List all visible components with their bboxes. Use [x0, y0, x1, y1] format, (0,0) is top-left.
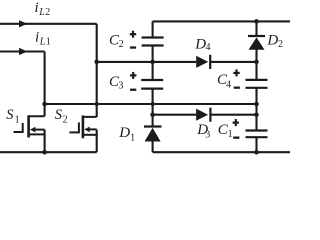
capacitor C3 plates [141, 80, 163, 89]
node dot railB / right column [254, 112, 259, 117]
label S1 [6, 107, 19, 125]
wire C column upper [152, 21, 154, 37]
diode D3 [196, 108, 210, 122]
transistor S1 arrowhead [30, 127, 36, 133]
wire rail y62 left part [97, 61, 197, 63]
wire S1 source vertical [44, 130, 46, 153]
wire ground right [153, 151, 290, 153]
svg-text:4: 4 [226, 79, 231, 90]
wire C column mid1 [152, 46, 154, 80]
svg-text:2: 2 [278, 39, 283, 50]
wire right column mid2 [255, 88, 257, 131]
wire right column lower [255, 137, 257, 152]
wire iL1 horizontal [0, 50, 45, 52]
node dot railA / V2 [95, 102, 99, 106]
arrow iL1 [19, 48, 28, 55]
svg-text:i: i [35, 0, 39, 16]
wire iL2 horizontal [0, 23, 97, 25]
wire S2 source vertical [96, 130, 98, 153]
capacitor C1 plates [246, 131, 268, 138]
polarity C4 minus [234, 87, 240, 89]
diode D2 [248, 36, 265, 50]
node dot railA / C column [151, 102, 155, 106]
polarity C1 minus [233, 137, 239, 139]
svg-text:1: 1 [15, 114, 20, 125]
transistor S2 [69, 115, 96, 138]
svg-text:S: S [55, 107, 63, 123]
polarity C3 plus [130, 72, 136, 79]
polarity C4 plus [233, 69, 239, 76]
node dot rail62 / C column [150, 60, 155, 65]
node dot railA / V1 [42, 102, 47, 107]
label D4 [194, 36, 210, 53]
svg-text:i: i [35, 30, 39, 46]
wire iL1 vertical (node b) [44, 52, 46, 117]
node dot rail62 / V2 [94, 60, 99, 65]
wire rail y62 right part [210, 61, 256, 63]
label C1 [218, 122, 233, 140]
wire C column lower [152, 141, 154, 152]
diode D4 [196, 55, 210, 69]
polarity C2 plus [130, 31, 136, 38]
wire rail A y104 [45, 103, 257, 105]
label C3 [109, 74, 123, 92]
wire C column mid2 [152, 89, 154, 127]
svg-text:4: 4 [206, 42, 211, 53]
capacitor C2 plates [142, 38, 164, 46]
svg-text:1: 1 [130, 133, 135, 144]
polarity C1 plus [233, 119, 239, 126]
polarity C3 minus [130, 89, 136, 91]
svg-text:D: D [118, 125, 130, 141]
label C4 [217, 72, 231, 90]
svg-text:D: D [194, 36, 206, 52]
wire right column upper [255, 21, 257, 36]
label D2 [266, 33, 283, 50]
svg-text:2: 2 [63, 115, 68, 126]
label D1 [118, 125, 135, 144]
node dot ground / V1 [42, 150, 47, 155]
wire rail B y114.7 left part [153, 114, 197, 116]
label D3 [196, 122, 210, 140]
svg-text:1: 1 [228, 129, 233, 140]
svg-text:3: 3 [205, 129, 210, 140]
wire ground left [0, 151, 97, 153]
svg-text:1: 1 [46, 37, 51, 48]
svg-text:D: D [266, 33, 278, 49]
svg-text:S: S [6, 107, 14, 123]
svg-text:3: 3 [118, 81, 123, 92]
node dot railB / C column [150, 112, 155, 117]
capacitor C4 plates [246, 80, 268, 88]
arrow iL2 [19, 20, 28, 27]
node dot top rail / D2 [254, 19, 259, 24]
wire right column mid1 [255, 49, 257, 80]
node dot railA / right column [254, 102, 259, 107]
label S2 [55, 107, 68, 125]
polarity C2 minus [130, 46, 136, 48]
diode D1 [144, 127, 162, 142]
label iL2 [35, 0, 51, 18]
wire top output rail [153, 20, 290, 22]
svg-text:2: 2 [119, 39, 124, 50]
transistor S2 arrowhead [84, 127, 90, 133]
svg-text:2: 2 [45, 7, 50, 18]
wire rail B y114.7 right part [210, 114, 256, 116]
transistor S1 [14, 115, 45, 137]
label C2 [109, 32, 124, 50]
node dot ground / right column [254, 150, 259, 155]
wire iL2 vertical (node a) [96, 24, 98, 117]
node dot rail62 / right column [254, 60, 259, 65]
label iL1 [35, 30, 51, 48]
